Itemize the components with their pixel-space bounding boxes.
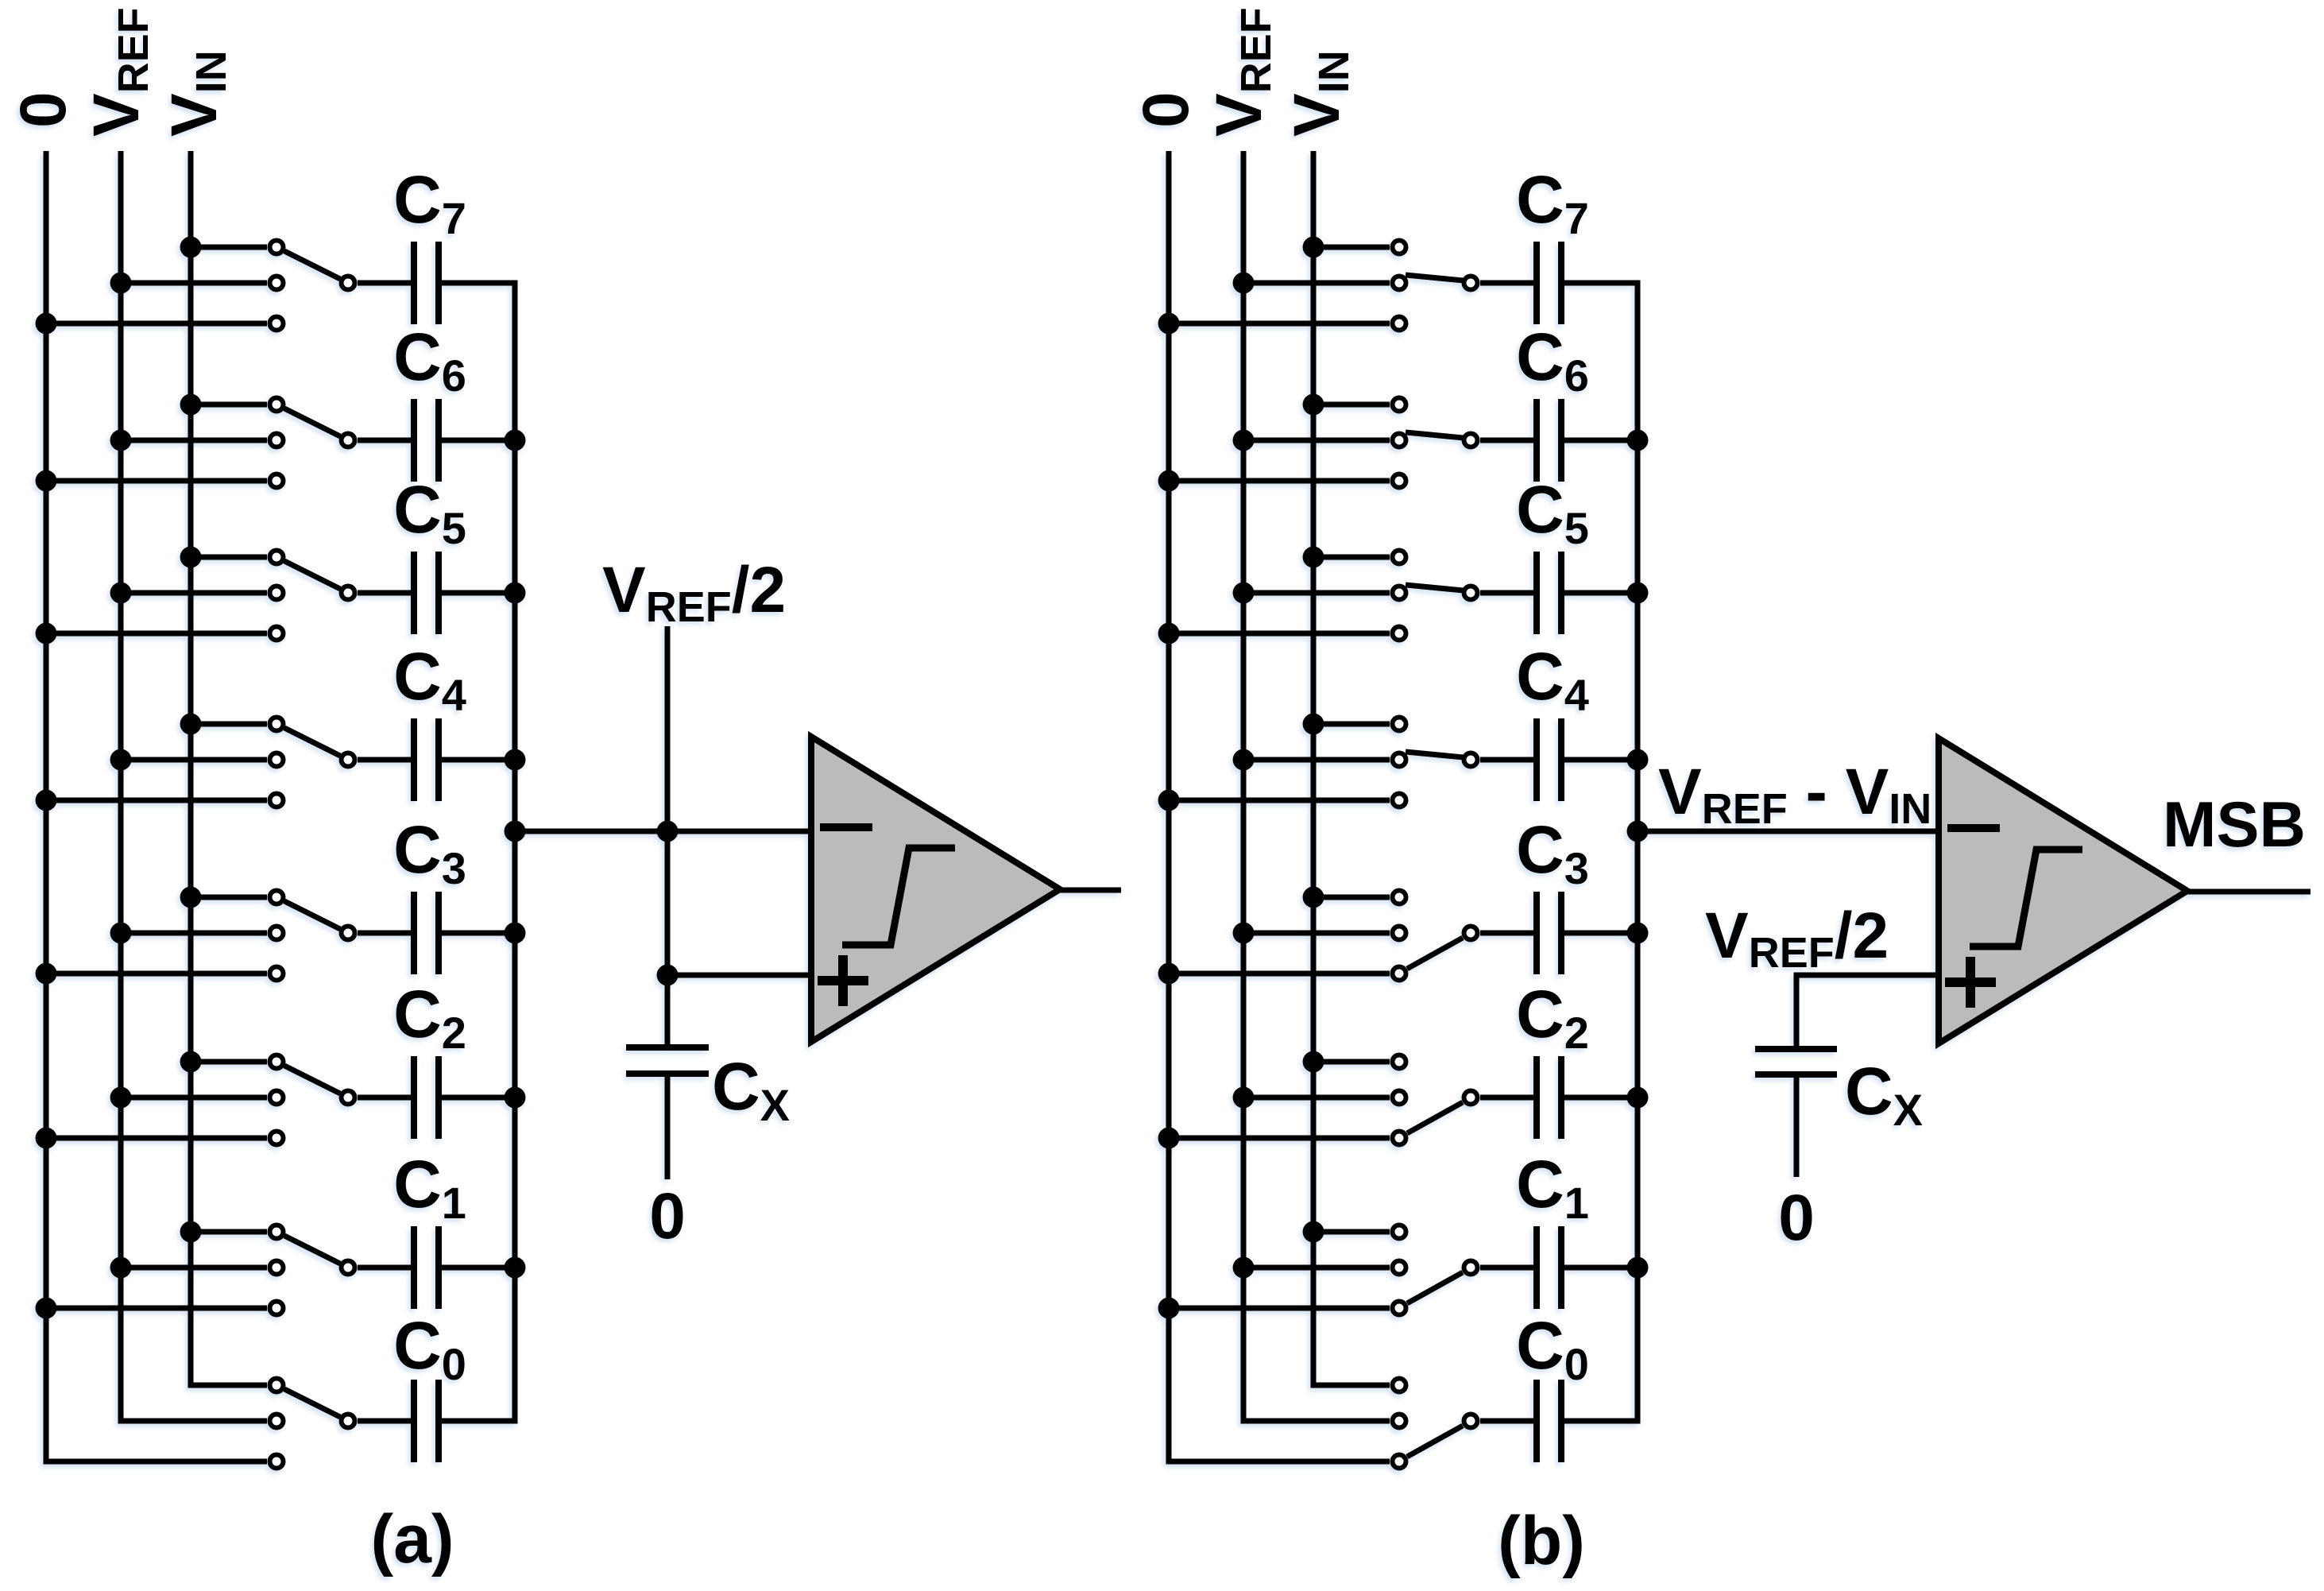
wire VIN stub to S3b [1313, 895, 1390, 900]
wire VREF stub to S4b [1243, 757, 1390, 763]
wire comparator non-inverting input (a) [667, 973, 811, 978]
junction VREF rail / S3a stub [110, 923, 132, 944]
junction VIN rail / S6a stub [180, 394, 202, 416]
wire VREF stub to S4a [121, 757, 267, 763]
wire VIN stub to S2b [1313, 1059, 1390, 1065]
junction bus / C3 (b) [1627, 923, 1649, 944]
net VIN rail (a) [191, 151, 267, 1385]
switch S5a [270, 551, 355, 641]
wire 0 stub to S5a [46, 631, 267, 637]
switch S3a [270, 891, 355, 981]
wire VIN stub to S6a [191, 402, 267, 408]
wire VIN stub to S7b [1313, 245, 1390, 250]
wire 0 stub to S1b [1169, 1306, 1390, 1311]
capacitor C1 (a) [358, 1226, 518, 1309]
capacitor CX (a) [626, 1047, 709, 1179]
wire VREF stub to S0a [121, 1419, 267, 1424]
switch S6a [270, 398, 355, 488]
junction VREF rail / S6b stub [1233, 430, 1255, 451]
junction bus / C1 (b) [1627, 1257, 1649, 1279]
wire 0 stub to S3b [1169, 971, 1390, 977]
net 0 rail (b) [1169, 151, 1390, 1461]
switch S0b [1393, 1379, 1478, 1469]
junction 0 rail / S2a stub [36, 1128, 57, 1149]
junction VREF/2 / inverting wire (a) [657, 821, 679, 842]
capacitor C5 (b) [1480, 552, 1641, 634]
wire VREF stub to S5a [121, 590, 267, 596]
top-plate bus (b) [1635, 281, 1641, 1424]
wire VREF stub to S6b [1243, 438, 1390, 443]
junction VREF rail / S4b stub [1233, 749, 1255, 771]
capacitor C2 (a) [358, 1056, 518, 1139]
net VREF rail (a) [121, 151, 267, 1421]
junction VIN rail / S7b stub [1303, 237, 1324, 258]
wire 0 stub to S4a [46, 798, 267, 803]
switch S4a [270, 718, 355, 807]
wire 0 stub to S0a [46, 1459, 267, 1465]
wire 0 stub to S3a [46, 971, 267, 977]
junction 0 rail / S3a stub [36, 963, 57, 985]
wire comparator non-inverting input (b) [1796, 975, 1939, 1049]
junction VREF rail / S5b stub [1233, 583, 1255, 604]
capacitor C6 (b) [1480, 399, 1641, 482]
wire U1 output [1060, 888, 1121, 893]
junction VIN rail / S3a stub [180, 887, 202, 908]
wire VREF stub to S3b [1243, 931, 1390, 936]
wire VREF stub to S1b [1243, 1265, 1390, 1271]
wire 0 stub to S0b [1169, 1459, 1390, 1465]
junction bus / C2 (a) [505, 1087, 526, 1109]
junction VREF/2 / non-inverting wire (a) [657, 965, 679, 986]
capacitor C2 (b) [1480, 1056, 1641, 1139]
wire 0 stub to S5b [1169, 631, 1390, 637]
junction bus / C4 (b) [1627, 749, 1649, 771]
switch S4b [1393, 718, 1478, 807]
wire 0 stub to S1a [46, 1306, 267, 1311]
switch S0a [270, 1379, 355, 1469]
switch S3b [1393, 891, 1478, 981]
wire 0 stub to S4b [1169, 798, 1390, 803]
svg-text:0: 0 [649, 1180, 686, 1252]
wire VIN stub to S1b [1313, 1229, 1390, 1235]
junction VIN rail / S5b stub [1303, 547, 1324, 568]
junction VREF rail / S5a stub [110, 583, 132, 604]
junction VIN rail / S2b stub [1303, 1051, 1324, 1073]
capacitor C6 (a) [358, 399, 518, 482]
junction bus / C4 (a) [505, 749, 526, 771]
junction bus / C6 (b) [1627, 430, 1649, 451]
net VREF rail (b) [1243, 151, 1390, 1421]
junction VREF rail / S6a stub [110, 430, 132, 451]
switch S7b [1393, 241, 1478, 331]
wire VREF stub to S1a [121, 1265, 267, 1271]
capacitor C7 (b) [1480, 242, 1641, 324]
wire VIN stub to S6b [1313, 402, 1390, 408]
junction bus / C5 (a) [505, 583, 526, 604]
wire VREF stub to S7b [1243, 281, 1390, 286]
junction 0 rail / S6a stub [36, 470, 57, 492]
wire VREF stub to S6a [121, 438, 267, 443]
wire VREF stub to S3a [121, 931, 267, 936]
wire VIN stub to S1a [191, 1229, 267, 1235]
wire VREF stub to S5b [1243, 590, 1390, 596]
switch S1b [1393, 1225, 1478, 1315]
net VIN rail (b) [1313, 151, 1390, 1385]
wire 0 stub to S6b [1169, 478, 1390, 484]
junction bus / C1 (a) [505, 1257, 526, 1279]
op-amp comparator U2 (b) [1939, 738, 2187, 1043]
switch S2a [270, 1055, 355, 1145]
wire 0 stub to S2b [1169, 1136, 1390, 1141]
svg-text:0: 0 [1130, 91, 1202, 128]
wire comparator inverting input (a) [515, 829, 811, 834]
junction 0 rail / S6b stub [1158, 470, 1180, 492]
junction 0 rail / S1a stub [36, 1298, 57, 1319]
wire 0 stub to S2a [46, 1136, 267, 1141]
wire VIN stub to S4a [191, 722, 267, 727]
capacitor C4 (b) [1480, 718, 1641, 801]
svg-text:0: 0 [1778, 1182, 1815, 1254]
capacitor C7 (a) [358, 242, 518, 324]
junction VREF rail / S1b stub [1233, 1257, 1255, 1279]
junction VIN rail / S2a stub [180, 1051, 202, 1073]
switch S6b [1393, 398, 1478, 488]
svg-text:(b): (b) [1498, 1503, 1585, 1579]
junction bus output tap (b) [1627, 821, 1649, 842]
junction VIN rail / S1b stub [1303, 1221, 1324, 1243]
junction bus / C5 (b) [1627, 583, 1649, 604]
switch S7a [270, 241, 355, 331]
junction VIN rail / S3b stub [1303, 887, 1324, 908]
wire VREF stub to S7a [121, 281, 267, 286]
capacitor C1 (b) [1480, 1226, 1641, 1309]
wire 0 stub to S7b [1169, 321, 1390, 327]
wire VREF stub to S2b [1243, 1095, 1390, 1101]
node VREF/2 (a) [665, 626, 671, 1047]
junction VREF rail / S2a stub [110, 1087, 132, 1109]
wire VIN stub to S0b [1313, 1383, 1390, 1388]
wire VIN stub to S4b [1313, 722, 1390, 727]
junction VREF rail / S7b stub [1233, 273, 1255, 294]
junction 0 rail / S5a stub [36, 623, 57, 645]
op-amp comparator U1 (a) [811, 737, 1060, 1042]
junction 0 rail / S7a stub [36, 313, 57, 335]
wire VREF stub to S0b [1243, 1419, 1390, 1424]
junction VREF rail / S7a stub [110, 273, 132, 294]
switch S1a [270, 1225, 355, 1315]
switch S5b [1393, 551, 1478, 641]
junction VIN rail / S4b stub [1303, 714, 1324, 735]
junction VREF rail / S3b stub [1233, 923, 1255, 944]
wire VIN stub to S2a [191, 1059, 267, 1065]
junction 0 rail / S4b stub [1158, 790, 1180, 811]
junction 0 rail / S1b stub [1158, 1298, 1180, 1319]
junction 0 rail / S3b stub [1158, 963, 1180, 985]
junction VIN rail / S1a stub [180, 1221, 202, 1243]
junction bus / C6 (a) [505, 430, 526, 451]
wire 0 stub to S7a [46, 321, 267, 327]
wire 0 stub to S6a [46, 478, 267, 484]
svg-text:(a): (a) [370, 1501, 454, 1577]
junction bus / C3 (a) [505, 923, 526, 944]
junction 0 rail / S5b stub [1158, 623, 1180, 645]
capacitor C4 (a) [358, 718, 518, 801]
junction 0 rail / S4a stub [36, 790, 57, 811]
junction VREF rail / S2b stub [1233, 1087, 1255, 1109]
wire VIN stub to S5a [191, 555, 267, 560]
capacitor C0 (a) [358, 1380, 518, 1462]
wire VIN stub to S5b [1313, 555, 1390, 560]
capacitor C0 (b) [1480, 1380, 1641, 1462]
wire comparator inverting input (b) [1638, 829, 1939, 834]
capacitor C3 (b) [1480, 892, 1641, 974]
switch S2b [1393, 1055, 1478, 1145]
wire VIN stub to S7a [191, 245, 267, 250]
junction 0 rail / S2b stub [1158, 1128, 1180, 1149]
junction VREF rail / S1a stub [110, 1257, 132, 1279]
net 0 rail (a) [46, 151, 267, 1461]
svg-text:MSB: MSB [2163, 789, 2306, 861]
svg-text:0: 0 [7, 91, 79, 128]
capacitor C3 (a) [358, 892, 518, 974]
top-plate bus (a) [512, 281, 518, 1424]
junction bus / C2 (b) [1627, 1087, 1649, 1109]
capacitor CX (b) [1755, 1049, 1837, 1177]
junction bus output tap (a) [505, 821, 526, 842]
junction VIN rail / S7a stub [180, 237, 202, 258]
junction 0 rail / S7b stub [1158, 313, 1180, 335]
junction VREF rail / S4a stub [110, 749, 132, 771]
wire U2 output (MSB) [2187, 889, 2310, 895]
junction VIN rail / S4a stub [180, 714, 202, 735]
wire VREF stub to S2a [121, 1095, 267, 1101]
wire VIN stub to S3a [191, 895, 267, 900]
wire VIN stub to S0a [191, 1383, 267, 1388]
capacitor C5 (a) [358, 552, 518, 634]
junction VIN rail / S5a stub [180, 547, 202, 568]
junction VIN rail / S6b stub [1303, 394, 1324, 416]
